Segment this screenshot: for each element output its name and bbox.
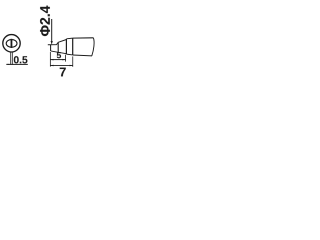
cone base vertical	[57, 42, 59, 52]
blade top line	[48, 42, 58, 44]
5 dim left arrow	[50, 59, 53, 61]
step vertical	[65, 39, 67, 54]
5 right witness	[65, 55, 67, 62]
cone top line	[58, 40, 66, 43]
cone bottom line	[58, 52, 66, 53]
end view outer circle	[3, 35, 20, 52]
phi 2.4 leader arrowhead	[51, 41, 53, 45]
sleeve break curve	[92, 38, 94, 56]
5 dim line	[50, 59, 65, 61]
0.5 dimension line	[6, 63, 28, 65]
collar top line	[66, 37, 72, 40]
blade tip edge	[50, 45, 52, 51]
end view cone ellipse	[6, 40, 17, 48]
7 dim left arrow	[50, 65, 53, 67]
phi 2.4 leader line	[51, 19, 53, 42]
collar bottom line	[66, 53, 72, 56]
sleeve front vertical	[72, 38, 74, 55]
7 right witness	[72, 56, 74, 66]
0.5 dim left arrow	[8, 64, 11, 65]
dims left witness	[49, 52, 51, 67]
label 7	[60, 68, 66, 77]
0.5 witness line left	[10, 52, 12, 65]
5 dim right arrow	[62, 59, 65, 61]
7 dim right arrow	[70, 65, 73, 67]
label phi 2.4 (rotated)	[40, 6, 50, 36]
label 0.5	[14, 56, 28, 63]
7 dim line	[50, 64, 72, 66]
end view blade edge strip	[11, 39, 13, 48]
sleeve top line	[73, 37, 94, 39]
label 5	[57, 52, 61, 58]
blade bottom line	[51, 51, 59, 52]
sleeve bottom line	[73, 54, 92, 57]
0.5 witness line right	[11, 52, 13, 65]
